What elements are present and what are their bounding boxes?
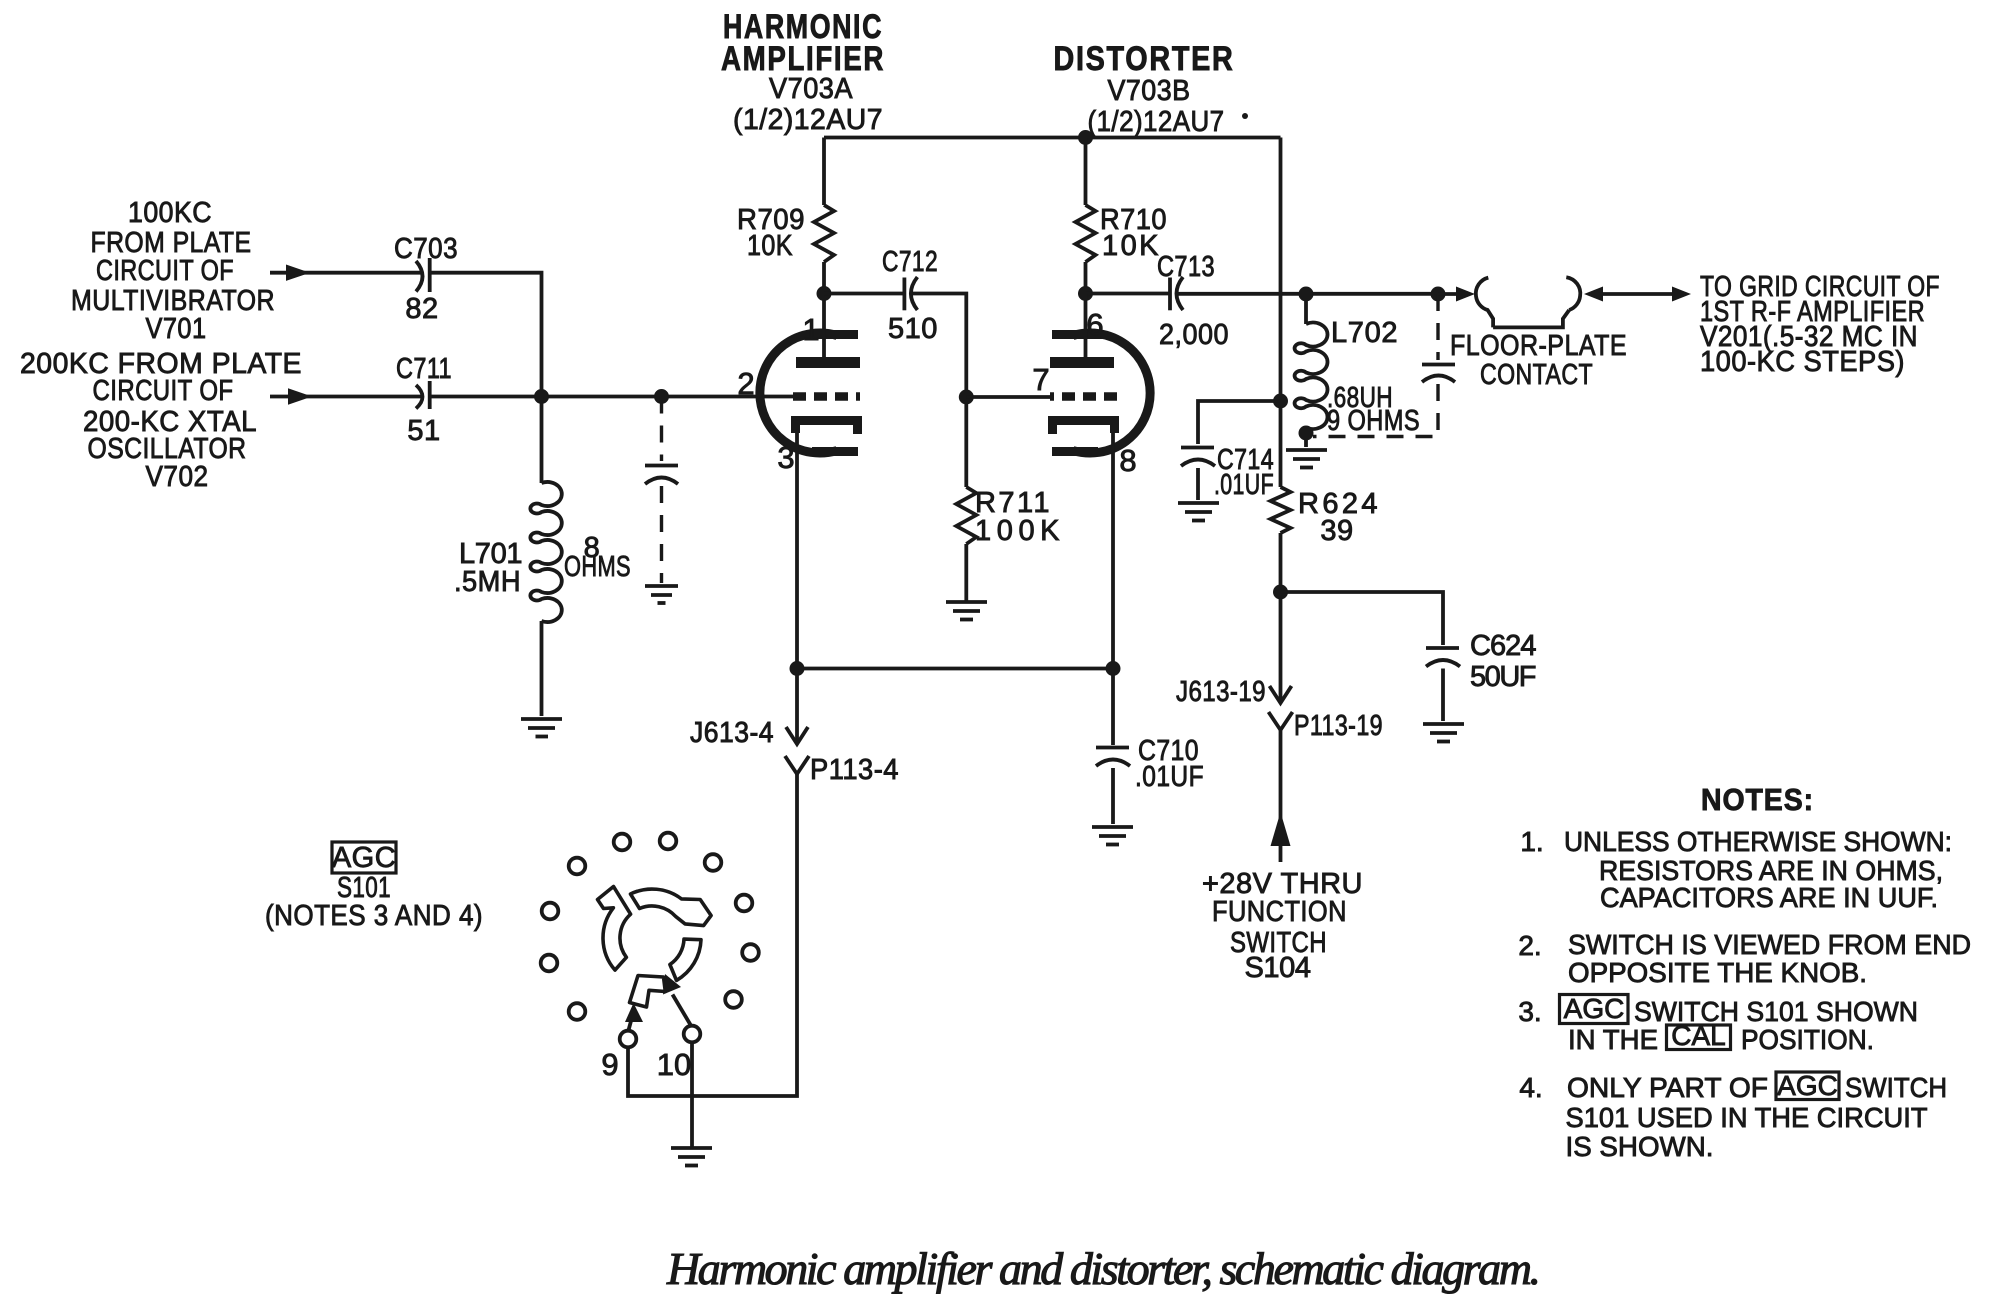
svg-text:51: 51: [407, 415, 440, 447]
tube V703A plate: [796, 357, 860, 368]
label V703A (1/2)12AU7: [733, 73, 883, 136]
ground below phantom capacitor: [645, 586, 678, 603]
wire 100KC input line: [270, 271, 421, 275]
svg-text:C712: C712: [882, 246, 938, 278]
switch contact circle: [569, 858, 586, 875]
svg-text:3.: 3.: [1518, 996, 1541, 1027]
svg-text:AGC: AGC: [1564, 993, 1625, 1024]
svg-text:OHMS: OHMS: [564, 551, 631, 583]
switch contact circle: [725, 991, 742, 1008]
inductor L701: [530, 397, 561, 717]
capacitor C624: [1426, 648, 1460, 667]
svg-text:C713: C713: [1157, 251, 1215, 283]
wire output link: [1601, 292, 1676, 296]
switch contact circle: [742, 944, 759, 961]
label R709 10K: [737, 204, 805, 262]
wire contact 9 to wiper: [628, 1021, 631, 1031]
svg-text:J613-19: J613-19: [1176, 676, 1266, 708]
connector P113-4 socket: [785, 756, 809, 774]
floor-plate contact right spring: [1566, 277, 1580, 310]
wire C714 to ground: [1196, 468, 1200, 500]
capacitor phantom (dashed): [645, 466, 678, 485]
wire P113-4 down to switch contact 9: [628, 774, 797, 1096]
label AGC boxed: [332, 842, 396, 874]
svg-text:V701: V701: [146, 313, 207, 345]
svg-text:10: 10: [657, 1047, 691, 1082]
resistor R711: [956, 487, 976, 544]
switch contact circle: [736, 895, 753, 912]
svg-text:V703B: V703B: [1108, 75, 1191, 107]
node cathode A junction: [790, 661, 805, 676]
switch S101 rotor wiper elbow: [630, 976, 666, 1008]
svg-text:CAL: CAL: [1671, 1020, 1725, 1051]
switch S101 rotor segment lower-right: [670, 939, 701, 980]
tube V703B envelope: [1052, 333, 1150, 453]
svg-text:2.: 2.: [1518, 930, 1541, 961]
tube V703B plate: [1050, 357, 1114, 368]
svg-text:.01UF: .01UF: [1135, 761, 1204, 793]
connector P113-19 socket: [1269, 712, 1293, 730]
switch contact 9 circle: [620, 1031, 637, 1048]
tube V703A cathode: [796, 421, 858, 435]
ground below R711: [946, 602, 987, 620]
label .68UH 9 OHMS: [1327, 382, 1420, 437]
node C714 tap junction: [1273, 394, 1288, 409]
ground below C710: [1092, 827, 1133, 845]
capacitor C712: [904, 277, 917, 310]
svg-text:P113-19: P113-19: [1294, 710, 1383, 742]
node cathode B junction: [1106, 661, 1121, 676]
wire bus to R709: [822, 138, 826, 206]
wire C703 to junction: [430, 273, 542, 397]
label C624 50UF: [1470, 630, 1537, 693]
svg-text:DISTORTER: DISTORTER: [1054, 40, 1235, 78]
label C711 value 51: [396, 353, 452, 447]
svg-text:C711: C711: [396, 353, 452, 385]
svg-text:IS SHOWN.: IS SHOWN.: [1566, 1131, 1714, 1162]
switch contact circle: [660, 833, 677, 850]
node bus junction over R710: [1078, 130, 1093, 145]
capacitor floor-plate (dashed leads): [1422, 365, 1455, 383]
ground below C624: [1423, 724, 1464, 742]
label TO GRID CIRCUIT OF 1ST R-F AMPLIFIER V201: [1700, 271, 1940, 378]
wire J613-4 drop from cathode bus: [795, 669, 799, 745]
label +28V THRU FUNCTION SWITCH S104: [1202, 868, 1363, 984]
wire contact 10 to ground: [690, 1042, 694, 1148]
resistor R710: [1076, 205, 1096, 262]
svg-text:CIRCUIT OF: CIRCUIT OF: [96, 255, 234, 287]
capacitor C714: [1181, 448, 1215, 467]
svg-text:10K: 10K: [747, 230, 793, 262]
wire +28V feed: [1279, 730, 1283, 862]
svg-text:CIRCUIT OF: CIRCUIT OF: [93, 375, 234, 407]
wire 200KC line to grid of V703A: [430, 395, 795, 399]
label R711 100K: [975, 487, 1060, 547]
svg-text:82: 82: [405, 293, 438, 325]
svg-text:2: 2: [737, 366, 754, 401]
svg-text:100-KC STEPS): 100-KC STEPS): [1700, 346, 1905, 378]
switch S101 contact ring: [541, 833, 759, 1048]
svg-text:4.: 4.: [1519, 1072, 1542, 1103]
label V703B (1/2)12AU7: [1088, 75, 1225, 138]
wire R711 to ground: [964, 544, 968, 601]
wire contact 10 to wiper: [673, 995, 692, 1027]
wire top B+ bus: [824, 136, 1281, 140]
svg-text:1: 1: [802, 312, 819, 347]
svg-text:CONTACT: CONTACT: [1480, 359, 1593, 391]
node junction C703/C711: [534, 389, 549, 404]
arrowhead wiper from contact 9: [625, 1003, 643, 1022]
svg-text:UNLESS OTHERWISE SHOWN:: UNLESS OTHERWISE SHOWN:: [1564, 826, 1952, 857]
wire bus to R710: [1084, 138, 1088, 206]
switch contact circle: [541, 955, 558, 972]
arrowhead output right: [1672, 287, 1691, 302]
wire R709 to plate node: [822, 262, 826, 294]
wire bus right drop: [1279, 138, 1283, 488]
svg-text:AGC: AGC: [1777, 1070, 1838, 1101]
svg-text:6: 6: [1086, 307, 1103, 342]
label C703 value 82: [394, 233, 458, 325]
svg-text:3: 3: [777, 440, 794, 475]
svg-text:9: 9: [601, 1047, 618, 1082]
arrowhead output left: [1584, 287, 1603, 302]
resistor R709: [814, 205, 834, 262]
svg-text:50UF: 50UF: [1470, 661, 1537, 693]
capacitor C713: [1170, 277, 1183, 310]
tube V703A grid (dashed): [793, 392, 860, 401]
node plate B junction: [1078, 286, 1093, 301]
label L701 .5MH: [454, 538, 523, 598]
resistor R624: [1271, 487, 1291, 533]
note 4: [1519, 1070, 1947, 1162]
arrowhead 200KC input: [288, 388, 312, 404]
switch contact circle: [614, 834, 631, 851]
svg-text:9 OHMS: 9 OHMS: [1327, 405, 1420, 437]
svg-text:S104: S104: [1245, 952, 1312, 984]
label 200KC FROM PLATE CIRCUIT OF 200-KC XTAL OSCILLATOR V702: [20, 348, 302, 493]
wire C712 to grid B drop: [912, 294, 966, 488]
svg-text:V703A: V703A: [769, 73, 853, 105]
svg-text:C624: C624: [1470, 630, 1537, 662]
ground below L701: [521, 719, 562, 737]
svg-text:FUNCTION: FUNCTION: [1212, 896, 1347, 928]
switch contact 10 circle: [684, 1026, 701, 1043]
svg-text:Harmonic amplifier and distort: Harmonic amplifier and distorter, schema…: [666, 1243, 1541, 1294]
inductor L702: [1295, 294, 1328, 447]
svg-text:SWITCH IS VIEWED FROM END: SWITCH IS VIEWED FROM END: [1568, 929, 1971, 960]
svg-text:V702: V702: [146, 461, 209, 493]
wire plate B to C713: [1086, 292, 1171, 296]
label C713 value 2,000: [1157, 251, 1229, 351]
tube V703B grid (dashed): [1050, 392, 1117, 401]
node plate A junction: [817, 286, 832, 301]
svg-text:(1/2)12AU7: (1/2)12AU7: [733, 104, 883, 136]
svg-text:1.: 1.: [1520, 826, 1543, 857]
wire dashed floor-plate capacitor: [1436, 294, 1439, 360]
svg-text:L702: L702: [1331, 317, 1398, 349]
svg-text:ONLY PART OF: ONLY PART OF: [1567, 1072, 1768, 1103]
svg-text:AGC: AGC: [332, 842, 396, 874]
svg-text:P113-4: P113-4: [810, 754, 899, 786]
svg-text:39: 39: [1320, 515, 1353, 547]
node output junction: [1431, 287, 1446, 302]
label FLOOR-PLATE CONTACT: [1450, 330, 1627, 391]
floor-plate contact plate: [1493, 310, 1569, 327]
wire cathode lead pin 8: [1111, 430, 1115, 669]
node junction phantom capacitor tap: [654, 389, 669, 404]
svg-text:FLOOR-PLATE: FLOOR-PLATE: [1450, 330, 1627, 362]
arrowhead wiper from contact 10: [663, 974, 681, 995]
wire C710 to ground: [1111, 768, 1115, 824]
label HARMONIC AMPLIFIER heading: [721, 8, 885, 78]
note 2: [1518, 929, 1971, 988]
svg-text:C703: C703: [394, 233, 458, 265]
speck dot: [1242, 113, 1248, 119]
connector J613-4 arrow: [786, 727, 808, 744]
svg-text:7: 7: [1032, 362, 1049, 397]
wire plate lead pin 1: [822, 294, 826, 359]
svg-text:100KC: 100KC: [128, 197, 212, 229]
svg-text:.01UF: .01UF: [1214, 469, 1274, 501]
wire R710 to plate node: [1084, 262, 1088, 294]
svg-text:10K: 10K: [1102, 230, 1159, 262]
wire plate lead pin 6: [1084, 294, 1088, 359]
svg-text:510: 510: [888, 313, 938, 345]
wire cathode bus: [797, 667, 1113, 671]
wire dashed to L702 foot: [1313, 384, 1438, 437]
svg-text:CAPACITORS ARE IN UUF.: CAPACITORS ARE IN UUF.: [1600, 882, 1938, 913]
capacitor C711: [416, 381, 430, 409]
switch contact circle: [569, 1003, 586, 1020]
wire C624 branch: [1281, 592, 1444, 645]
arrowhead into floor-plate contact: [1456, 287, 1475, 302]
node grid B junction: [959, 390, 974, 405]
wire 200KC input line: [270, 395, 421, 399]
wire C713 to output node: [1178, 292, 1439, 296]
label R624 39: [1298, 488, 1378, 547]
tube V703A envelope: [760, 333, 858, 453]
svg-text:S101 USED IN THE CIRCUIT: S101 USED IN THE CIRCUIT: [1566, 1102, 1928, 1133]
svg-text:8: 8: [1119, 443, 1136, 478]
svg-text:100K: 100K: [975, 515, 1060, 547]
wire cathode lead pin 3: [795, 430, 799, 669]
switch S101 rotor segment top: [631, 889, 712, 926]
svg-text:NOTES:: NOTES:: [1701, 782, 1814, 817]
connector J613-19 arrow: [1270, 686, 1292, 703]
ground below C714: [1178, 503, 1219, 521]
capacitor C710: [1096, 748, 1130, 767]
node L702 top junction: [1299, 287, 1314, 302]
floor-plate contact left spring: [1476, 278, 1493, 328]
node C624 tap junction: [1273, 585, 1288, 600]
wire plate A to C712: [824, 292, 904, 296]
svg-text:(1/2)12AU7: (1/2)12AU7: [1088, 106, 1225, 138]
label R710 10K: [1100, 204, 1167, 262]
svg-text:(NOTES 3 AND 4): (NOTES 3 AND 4): [265, 900, 483, 932]
svg-text:J613-4: J613-4: [690, 717, 774, 749]
switch contact circle: [705, 854, 722, 871]
arrowhead +28V up: [1271, 812, 1291, 846]
node L702 bottom junction: [1299, 426, 1314, 441]
note 1: [1520, 826, 1952, 913]
wire grid B junction to pin 7: [966, 395, 1052, 399]
capacitor C703: [416, 258, 430, 292]
switch contact circle: [542, 903, 559, 920]
wire to C710: [1111, 669, 1115, 746]
ground below contact 10: [671, 1148, 712, 1166]
label C714 .01UF: [1214, 444, 1274, 501]
wire dashed phantom capacitor to ground: [660, 486, 663, 583]
arrowhead 100KC input: [286, 265, 310, 281]
wire C624 to ground: [1441, 669, 1445, 722]
label 100KC FROM PLATE CIRCUIT OF MULTIVIBRATOR V701: [71, 197, 275, 345]
svg-text:IN THE: IN THE: [1568, 1024, 1658, 1055]
wire R624 to J613-19: [1279, 533, 1283, 703]
ground below L702: [1286, 450, 1327, 468]
svg-text:SWITCH: SWITCH: [1845, 1072, 1947, 1103]
label 8 OHMS: [564, 532, 631, 583]
svg-text:2,000: 2,000: [1159, 319, 1229, 351]
svg-text:.5MH: .5MH: [454, 566, 521, 598]
label C712 value 510: [882, 246, 938, 345]
wire to C714: [1198, 401, 1281, 444]
wire dashed phantom capacitor drop: [660, 397, 663, 462]
svg-text:POSITION.: POSITION.: [1741, 1024, 1874, 1055]
switch S101 rotor segment upper-left: [598, 887, 631, 971]
tube V703B cathode: [1053, 421, 1115, 435]
svg-text:OPPOSITE THE KNOB.: OPPOSITE THE KNOB.: [1568, 957, 1867, 988]
note 3: [1518, 993, 1918, 1055]
wire output node to contact: [1438, 292, 1462, 296]
label C710 .01UF: [1135, 735, 1204, 793]
